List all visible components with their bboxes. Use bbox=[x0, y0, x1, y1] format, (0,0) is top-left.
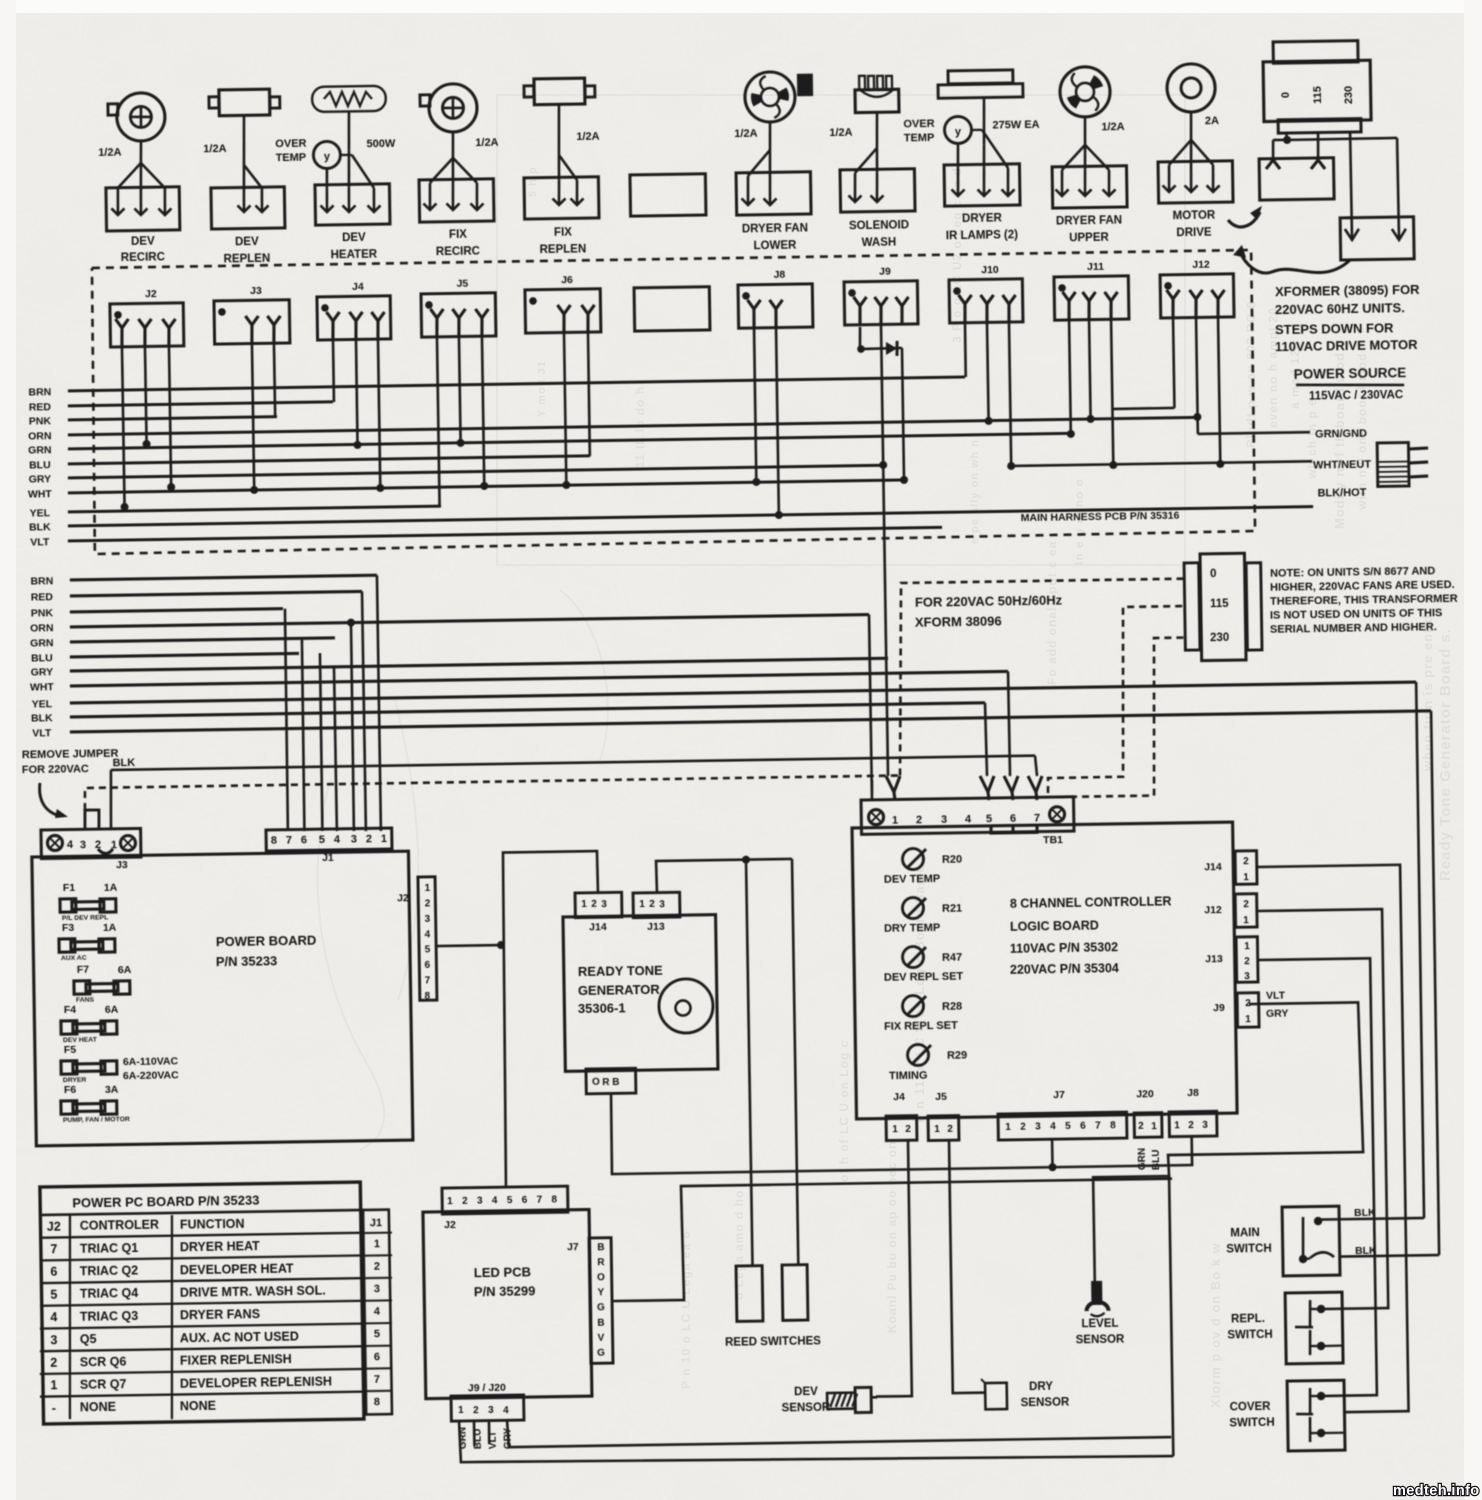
svg-text:3: 3 bbox=[1202, 1120, 1208, 1131]
wire J2 pin1 to YEL bbox=[122, 346, 125, 507]
svg-text:1: 1 bbox=[1174, 1120, 1180, 1131]
svg-text:J14: J14 bbox=[589, 921, 607, 933]
ready tone generator box bbox=[563, 915, 718, 1072]
svg-text:3A: 3A bbox=[105, 1084, 119, 1096]
svg-text:J3: J3 bbox=[116, 859, 128, 871]
svg-text:DEV: DEV bbox=[131, 236, 155, 248]
svg-text:DRY TEMP: DRY TEMP bbox=[884, 922, 940, 935]
svg-text:DRYER HEAT: DRYER HEAT bbox=[180, 1239, 260, 1254]
svg-text:1/2A: 1/2A bbox=[829, 127, 852, 139]
svg-text:V: V bbox=[597, 1333, 604, 1344]
wire J11 pin1 to GRN end bbox=[1069, 319, 1071, 434]
svg-text:F4: F4 bbox=[64, 1004, 77, 1016]
wire J3 pin1 to WHT bbox=[252, 343, 254, 490]
curved arrow to primary connector bbox=[1228, 212, 1260, 227]
connector J7 LED bbox=[589, 1238, 613, 1364]
wire BLK to TB1 pin5 bbox=[985, 703, 987, 776]
wire J12 to repl switch bbox=[1257, 909, 1388, 1310]
svg-text:7: 7 bbox=[50, 1242, 57, 1256]
svg-text:6: 6 bbox=[1080, 1121, 1086, 1132]
svg-text:MOTOR: MOTOR bbox=[1173, 210, 1216, 223]
wire ready tone J13 to reed switches bbox=[656, 859, 792, 893]
fuse fork DEV REPLEN bbox=[243, 115, 245, 165]
wire J4.2 to dev sensor bbox=[872, 1140, 912, 1397]
svg-text:6: 6 bbox=[301, 834, 307, 846]
svg-text:DEVELOPER REPLENISH: DEVELOPER REPLENISH bbox=[180, 1374, 332, 1390]
svg-text:3: 3 bbox=[80, 839, 86, 851]
svg-text:DRIVE: DRIVE bbox=[1176, 227, 1212, 240]
diode CR1 at J9 bbox=[858, 327, 861, 349]
wire cover bottom stub bbox=[1321, 1432, 1345, 1435]
potentiometer R21 bbox=[902, 897, 923, 918]
svg-text:MAIN: MAIN bbox=[1230, 1227, 1260, 1239]
svg-text:RECIRC: RECIRC bbox=[436, 246, 480, 259]
svg-text:REED SWITCHES: REED SWITCHES bbox=[725, 1335, 821, 1348]
connector box FIX RECIRC bbox=[419, 179, 494, 222]
wire LED BLU stub bbox=[473, 1420, 476, 1446]
wire BLU to J1 pin5 bbox=[320, 653, 323, 831]
connector ORB ready tone bbox=[586, 1068, 636, 1094]
wire J14 to cover switch bbox=[1257, 865, 1408, 1414]
svg-text:DEV HEAT: DEV HEAT bbox=[63, 1037, 98, 1045]
wire J10 pin1 to BRN elbow bbox=[964, 322, 968, 377]
svg-text:J12: J12 bbox=[1204, 904, 1222, 916]
svg-text:O: O bbox=[592, 1077, 600, 1088]
svg-text:J13: J13 bbox=[647, 921, 665, 933]
svg-text:FANS: FANS bbox=[76, 997, 95, 1004]
svg-text:DRYER: DRYER bbox=[962, 213, 1003, 226]
svg-text:BLK: BLK bbox=[113, 757, 136, 769]
svg-text:Y mod 31: Y mod 31 bbox=[536, 360, 548, 417]
svg-text:2A: 2A bbox=[1205, 115, 1219, 127]
svg-text:1: 1 bbox=[374, 1238, 380, 1250]
svg-text:J9: J9 bbox=[879, 266, 891, 278]
svg-text:J7: J7 bbox=[1053, 1089, 1065, 1101]
main switch box bbox=[1282, 1206, 1340, 1276]
svg-text:GRY: GRY bbox=[1266, 1008, 1289, 1020]
main harness PCB dashed box bbox=[90, 250, 1255, 554]
svg-text:1: 1 bbox=[1244, 941, 1250, 952]
wire J4 pin1 to RED elbow bbox=[332, 339, 336, 402]
connector box FIX REPLEN bbox=[524, 177, 599, 219]
svg-text:SCR Q6: SCR Q6 bbox=[80, 1354, 127, 1369]
svg-text:1/2A: 1/2A bbox=[734, 128, 757, 140]
fuse fork DRYER FAN UPPER bbox=[1083, 117, 1086, 145]
svg-text:POWER PC BOARD P/N 35233: POWER PC BOARD P/N 35233 bbox=[72, 1193, 259, 1211]
svg-text:DRYER FAN: DRYER FAN bbox=[1056, 214, 1122, 227]
connector J5 bbox=[421, 293, 496, 337]
svg-text:115: 115 bbox=[1210, 598, 1229, 610]
svg-text:5: 5 bbox=[50, 1288, 57, 1302]
svg-text:BLU: BLU bbox=[1151, 1149, 1162, 1170]
svg-text:FOR 220VAC 50Hz/60Hz: FOR 220VAC 50Hz/60Hz bbox=[915, 593, 1063, 610]
svg-text:Xlorm p ov d on Bo k w: Xlorm p ov d on Bo k w bbox=[1208, 1242, 1223, 1408]
power board box bbox=[32, 851, 413, 1146]
svg-text:1A: 1A bbox=[104, 882, 118, 894]
lamps DRYER IR LAMPS bbox=[948, 70, 1013, 84]
svg-text:TRIAC Q2: TRIAC Q2 bbox=[80, 1263, 139, 1278]
svg-text:0: 0 bbox=[1280, 92, 1292, 98]
svg-text:o Lega amo d ho: o Lega amo d ho bbox=[732, 1190, 746, 1300]
connector J11 bbox=[1054, 276, 1129, 320]
svg-text:5: 5 bbox=[986, 813, 992, 825]
wire J11 pin3 to WHT/NEUT bbox=[1111, 319, 1113, 465]
connector J8 bbox=[738, 284, 813, 328]
pump P2 FIX REPLEN bbox=[534, 78, 585, 105]
svg-text:115: 115 bbox=[1312, 86, 1324, 104]
svg-text:J9 / J20: J9 / J20 bbox=[468, 1382, 506, 1395]
svg-text:2: 2 bbox=[1244, 956, 1250, 967]
wire J4 pin2 to GRN bbox=[356, 339, 358, 445]
connector box DRYER IR LAMPS bbox=[944, 164, 1020, 206]
svg-text:5: 5 bbox=[319, 834, 325, 846]
svg-text:4: 4 bbox=[50, 1310, 57, 1324]
svg-text:7: 7 bbox=[1095, 1121, 1101, 1132]
svg-text:P n 10 o LC U Lega ea o: P n 10 o LC U Lega ea o bbox=[679, 1230, 693, 1389]
svg-text:ORN: ORN bbox=[30, 622, 54, 634]
cover switch contacts bbox=[1317, 1392, 1326, 1401]
wire LED VLT stub bbox=[488, 1420, 491, 1444]
svg-text:6: 6 bbox=[374, 1351, 380, 1363]
svg-text:2: 2 bbox=[366, 833, 372, 845]
svg-text:TRIAC Q1: TRIAC Q1 bbox=[80, 1241, 139, 1256]
wire J10 pin2 to ORN bbox=[987, 322, 989, 421]
svg-text:J12: J12 bbox=[1192, 259, 1210, 271]
potentiometer R20 bbox=[902, 848, 923, 869]
svg-text:STEPS DOWN FOR: STEPS DOWN FOR bbox=[1275, 320, 1394, 337]
arrow remove jumper bbox=[39, 783, 59, 817]
svg-text:3: 3 bbox=[1244, 971, 1250, 982]
svg-text:P/L DEV REPL: P/L DEV REPL bbox=[62, 914, 108, 922]
wire J9 pin3 to WHT bbox=[902, 348, 904, 480]
svg-text:RECIRC: RECIRC bbox=[121, 252, 165, 265]
svg-text:R28: R28 bbox=[942, 1001, 962, 1013]
wire GRN to J1 pin6 bbox=[301, 638, 304, 831]
svg-text:GRN: GRN bbox=[30, 637, 54, 649]
wire J8 pin1 to WHT bbox=[754, 327, 757, 482]
main switch contacts bbox=[1302, 1217, 1303, 1259]
wire BLK jumper bbox=[110, 770, 112, 830]
wire J8 pin2 to BLK bbox=[776, 327, 779, 515]
svg-text:J2: J2 bbox=[397, 892, 409, 904]
wire GRY bus1 vertical to TB1 pin1 bbox=[883, 465, 888, 776]
svg-text:REPLEN: REPLEN bbox=[539, 244, 586, 257]
svg-text:J3: J3 bbox=[250, 285, 262, 297]
svg-text:READY TONE: READY TONE bbox=[578, 963, 663, 979]
spare harness connector bbox=[634, 287, 710, 331]
wire GRY to J1 pin4 bbox=[334, 667, 337, 831]
svg-text:NOTE: ON UNITS S/N 8677 AND: NOTE: ON UNITS S/N 8677 AND bbox=[1270, 565, 1435, 580]
wire 115-tap bbox=[1316, 132, 1319, 160]
svg-text:1A: 1A bbox=[103, 922, 117, 934]
fuse fork DRYER FAN LOWER bbox=[768, 122, 772, 150]
wire J5 pin3 to WHT bbox=[482, 336, 484, 486]
svg-text:4: 4 bbox=[492, 1195, 498, 1206]
svg-text:DEV: DEV bbox=[342, 232, 366, 244]
svg-text:POWER SOURCE: POWER SOURCE bbox=[1294, 365, 1407, 382]
svg-text:J7: J7 bbox=[567, 1241, 579, 1253]
svg-text:2: 2 bbox=[1243, 856, 1249, 867]
svg-text:1: 1 bbox=[50, 1378, 57, 1392]
svg-text:8 CHANNEL CONTROLLER: 8 CHANNEL CONTROLLER bbox=[1010, 895, 1172, 912]
svg-text:TRIAC Q3: TRIAC Q3 bbox=[80, 1309, 139, 1324]
svg-text:TEMP: TEMP bbox=[904, 132, 935, 144]
wire J12 pin2 to ORN and GRN/GND bbox=[1196, 317, 1198, 434]
svg-text:4: 4 bbox=[334, 834, 341, 846]
dashed 230 tap wire bbox=[1056, 638, 1187, 798]
svg-text:UPPER: UPPER bbox=[1069, 232, 1109, 245]
svg-text:3: 3 bbox=[477, 1196, 483, 1207]
svg-text:FIX: FIX bbox=[554, 227, 572, 239]
TB1 left screw wire bbox=[870, 780, 873, 800]
svg-text:BLK: BLK bbox=[31, 712, 53, 724]
svg-text:YEL: YEL bbox=[30, 507, 51, 519]
svg-text:BLK/HOT: BLK/HOT bbox=[1317, 487, 1366, 500]
svg-text:SWITCH: SWITCH bbox=[1226, 1243, 1272, 1256]
svg-text:1/2A: 1/2A bbox=[475, 137, 498, 149]
wire WHT to TB1 pin6 bbox=[1008, 671, 1010, 776]
wire 0-tap bbox=[1286, 132, 1287, 139]
svg-text:1: 1 bbox=[1245, 1014, 1251, 1025]
wire ORB to J8.2 bbox=[611, 1084, 1192, 1174]
LED PCB box bbox=[423, 1210, 592, 1399]
wire junction column bbox=[1169, 1176, 1173, 1456]
svg-text:J6: J6 bbox=[561, 274, 573, 286]
connector J4 bbox=[317, 296, 391, 340]
connector J13 ready tone bbox=[633, 892, 680, 917]
svg-text:7: 7 bbox=[286, 835, 292, 847]
heater DEV HEATER 500W bbox=[312, 86, 386, 112]
svg-text:LOGIC BOARD: LOGIC BOARD bbox=[1010, 919, 1099, 934]
svg-text:Q5: Q5 bbox=[80, 1332, 97, 1346]
svg-text:3: 3 bbox=[351, 834, 357, 846]
svg-text:2: 2 bbox=[591, 899, 597, 910]
svg-text:SENSOR: SENSOR bbox=[1076, 1334, 1125, 1347]
connector J9 bbox=[844, 281, 918, 325]
svg-text:G: G bbox=[597, 1302, 605, 1313]
svg-text:B: B bbox=[612, 1077, 619, 1088]
svg-text:DRYER FAN: DRYER FAN bbox=[742, 222, 808, 235]
svg-text:WHT: WHT bbox=[30, 681, 55, 693]
svg-text:J10: J10 bbox=[981, 264, 999, 276]
svg-text:J9: J9 bbox=[1213, 1002, 1225, 1014]
svg-text:VLT: VLT bbox=[1266, 990, 1286, 1002]
wire J5 pin2 to GRN end bbox=[459, 336, 461, 443]
svg-text:3: 3 bbox=[374, 1283, 380, 1295]
wire LED GRN to junction column bbox=[459, 1409, 1173, 1467]
svg-text:220VAC P/N 35304: 220VAC P/N 35304 bbox=[1010, 961, 1119, 977]
repl switch box bbox=[1285, 1292, 1343, 1364]
wire YEL to main switch bbox=[1416, 682, 1425, 1218]
svg-text:COVER: COVER bbox=[1230, 1401, 1272, 1414]
svg-text:1: 1 bbox=[892, 1124, 898, 1135]
wire PNK to J1 pin7 bbox=[284, 609, 288, 831]
svg-text:4: 4 bbox=[425, 929, 431, 940]
svg-text:F1: F1 bbox=[63, 882, 76, 894]
cover switch box bbox=[1287, 1380, 1345, 1451]
svg-text:PNK: PNK bbox=[31, 607, 54, 619]
svg-text:8: 8 bbox=[271, 835, 277, 847]
svg-text:YEL: YEL bbox=[32, 698, 53, 710]
svg-text:2: 2 bbox=[649, 899, 655, 910]
connector J1 power board bbox=[266, 828, 392, 851]
svg-text:GRN: GRN bbox=[28, 444, 52, 456]
svg-text:6: 6 bbox=[425, 960, 431, 971]
svg-text:e pe ally on wh n: e pe ally on wh n bbox=[969, 439, 981, 544]
svg-text:5: 5 bbox=[425, 945, 431, 956]
svg-text:7: 7 bbox=[1034, 813, 1040, 825]
svg-text:SENSOR: SENSOR bbox=[782, 1402, 831, 1415]
connector box DEV REPLEN bbox=[211, 187, 285, 229]
jumper on J3 bbox=[85, 810, 100, 830]
svg-text:BLK: BLK bbox=[1354, 1207, 1376, 1219]
svg-text:XFORMER (38095) FOR: XFORMER (38095) FOR bbox=[1275, 282, 1420, 299]
connector box MOTOR DRIVE bbox=[1158, 161, 1233, 203]
svg-text:500W: 500W bbox=[366, 138, 396, 150]
connector J2 bbox=[110, 303, 184, 347]
svg-text:2: 2 bbox=[947, 1124, 953, 1135]
svg-text:3: 3 bbox=[425, 914, 431, 925]
svg-text:J4: J4 bbox=[352, 281, 364, 293]
svg-text:OVER: OVER bbox=[275, 138, 306, 150]
curved arrow to J12 dashed corner bbox=[1240, 250, 1350, 274]
svg-text:GRN/GND: GRN/GND bbox=[1315, 428, 1367, 441]
svg-text:DRIVE MTR. WASH SOL.: DRIVE MTR. WASH SOL. bbox=[180, 1284, 326, 1300]
svg-text:6A: 6A bbox=[105, 1004, 119, 1016]
svg-text:BLU: BLU bbox=[31, 652, 53, 664]
svg-text:ORN: ORN bbox=[28, 430, 52, 442]
svg-text:DEV REPL SET: DEV REPL SET bbox=[884, 971, 964, 984]
svg-text:2: 2 bbox=[905, 1124, 911, 1135]
svg-text:J1: J1 bbox=[370, 1217, 382, 1229]
motor M1 DEV RECIRC bbox=[117, 93, 166, 142]
connector J12 bbox=[1160, 274, 1234, 318]
svg-text:y: y bbox=[955, 126, 962, 138]
svg-text:R29: R29 bbox=[947, 1050, 967, 1062]
svg-text:R: R bbox=[597, 1257, 605, 1268]
svg-text:5 h p: 5 h p bbox=[527, 166, 539, 197]
svg-text:6: 6 bbox=[522, 1195, 528, 1206]
svg-text:NONE: NONE bbox=[180, 1399, 216, 1414]
svg-text:y: y bbox=[324, 151, 331, 163]
wire J5 pin1 to YEL elbow bbox=[437, 336, 440, 506]
svg-text:F7: F7 bbox=[77, 964, 90, 976]
svg-text:DEVELOPER HEAT: DEVELOPER HEAT bbox=[180, 1261, 294, 1277]
svg-text:NONE: NONE bbox=[80, 1400, 116, 1415]
wire J9 pin2 to GRY junction bbox=[881, 324, 883, 465]
svg-text:6: 6 bbox=[50, 1265, 57, 1279]
svg-text:1: 1 bbox=[425, 883, 431, 894]
svg-text:G: G bbox=[597, 1348, 605, 1359]
svg-text:3: 3 bbox=[1035, 1121, 1041, 1132]
wire J2 pin2 to GRN bbox=[145, 346, 147, 444]
svg-text:FIX: FIX bbox=[449, 229, 467, 241]
svg-text:275W EA: 275W EA bbox=[992, 119, 1039, 132]
svg-text:J11: J11 bbox=[1087, 261, 1104, 273]
svg-text:1: 1 bbox=[1243, 915, 1249, 926]
wire WHT/NEUT bbox=[1011, 461, 1312, 466]
svg-text:5: 5 bbox=[507, 1195, 513, 1206]
svg-text:VLT: VLT bbox=[30, 536, 50, 548]
svg-text:XFORM 38096: XFORM 38096 bbox=[915, 614, 1002, 630]
svg-text:F6: F6 bbox=[64, 1084, 77, 1096]
fuse fork FIX REPLEN bbox=[558, 104, 560, 155]
potentiometer R47 bbox=[902, 946, 923, 967]
svg-text:LED PCB: LED PCB bbox=[474, 1264, 531, 1280]
svg-text:WASH: WASH bbox=[862, 237, 897, 250]
svg-text:SENSOR: SENSOR bbox=[1021, 1397, 1070, 1410]
wire LED GRY to junction column bbox=[507, 1410, 1171, 1448]
svg-text:R: R bbox=[602, 1077, 610, 1088]
svg-text:CONTROLER: CONTROLER bbox=[80, 1218, 159, 1233]
svg-text:110VAC P/N 35302: 110VAC P/N 35302 bbox=[1010, 940, 1118, 956]
svg-text:2: 2 bbox=[473, 1405, 479, 1416]
svg-text:8: 8 bbox=[425, 991, 431, 1002]
power plug symbol bbox=[1377, 442, 1409, 486]
svg-text:DRY: DRY bbox=[1029, 1381, 1053, 1393]
TB1 funnels bbox=[886, 776, 894, 792]
svg-text:2: 2 bbox=[1138, 1121, 1144, 1132]
svg-text:TIMING: TIMING bbox=[889, 1069, 928, 1082]
svg-text:1: 1 bbox=[1005, 1122, 1011, 1133]
svg-text:8: 8 bbox=[1110, 1120, 1116, 1131]
svg-text:RED: RED bbox=[31, 591, 54, 603]
reed switch 1 bbox=[736, 1266, 763, 1322]
svg-text:J8: J8 bbox=[1187, 1087, 1199, 1099]
svg-text:2: 2 bbox=[50, 1356, 57, 1370]
svg-text:115VAC / 230VAC: 115VAC / 230VAC bbox=[1309, 389, 1403, 402]
svg-text:O: O bbox=[597, 1272, 605, 1283]
svg-text:2: 2 bbox=[1243, 899, 1249, 910]
thermostat DRYER IR bbox=[944, 116, 971, 143]
svg-text:Ready Tone Generator Board s.: Ready Tone Generator Board s. bbox=[1437, 628, 1454, 881]
thermostat DEV HEATER bbox=[313, 141, 340, 168]
svg-text:FIXER REPLENISH: FIXER REPLENISH bbox=[180, 1352, 292, 1368]
svg-text:5: 5 bbox=[374, 1328, 380, 1340]
svg-text:TB1: TB1 bbox=[1043, 834, 1063, 846]
fan FAN2 DRYER FAN UPPER bbox=[1060, 66, 1111, 117]
svg-text:FIX REPL SET: FIX REPL SET bbox=[884, 1020, 958, 1033]
svg-text:R20: R20 bbox=[942, 854, 962, 866]
terminal block J3 bbox=[41, 828, 141, 858]
svg-text:3: 3 bbox=[659, 899, 665, 910]
svg-text:230: 230 bbox=[1210, 632, 1229, 644]
svg-text:1: 1 bbox=[934, 1124, 940, 1135]
svg-text:110VAC DRIVE MOTOR: 110VAC DRIVE MOTOR bbox=[1275, 337, 1418, 354]
wire J9.2 to level sensor staircase bbox=[1090, 1002, 1365, 1281]
svg-text:BLU: BLU bbox=[29, 459, 51, 471]
svg-text:J2: J2 bbox=[47, 1219, 61, 1233]
wire J2 pin3 to WHT bbox=[169, 346, 171, 487]
svg-text:AUX. AC NOT USED: AUX. AC NOT USED bbox=[180, 1329, 299, 1345]
svg-text:2: 2 bbox=[1188, 1120, 1194, 1131]
svg-text:BRN: BRN bbox=[28, 386, 51, 398]
potentiometer R29 bbox=[907, 1044, 928, 1065]
reed switch 2 bbox=[782, 1265, 808, 1321]
svg-text:3: 3 bbox=[488, 1405, 494, 1416]
dashed 115 tap wire bbox=[1045, 606, 1187, 793]
svg-text:Fo add onal nput c ea: Fo add onal nput c ea bbox=[1045, 541, 1059, 685]
svg-text:TRIAC Q4: TRIAC Q4 bbox=[80, 1286, 139, 1301]
svg-text:7: 7 bbox=[425, 975, 431, 986]
svg-text:REMOVE JUMPER: REMOVE JUMPER bbox=[22, 747, 119, 760]
connector box DEV HEATER bbox=[315, 184, 390, 225]
svg-text:2: 2 bbox=[462, 1196, 468, 1207]
dry sensor bbox=[985, 1383, 1007, 1410]
wire reed switch 2 bbox=[792, 859, 798, 1265]
svg-text:GENERATOR: GENERATOR bbox=[578, 982, 661, 998]
svg-text:RED: RED bbox=[29, 401, 52, 413]
